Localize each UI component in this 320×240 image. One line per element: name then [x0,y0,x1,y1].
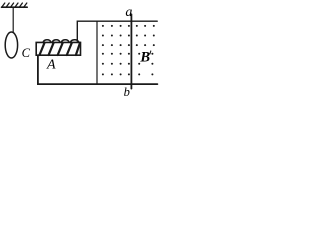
svg-text:a: a [125,5,132,20]
svg-text:B: B [139,50,150,66]
svg-text:b: b [124,85,130,99]
svg-text:C: C [22,46,31,60]
svg-text:A: A [46,58,56,73]
